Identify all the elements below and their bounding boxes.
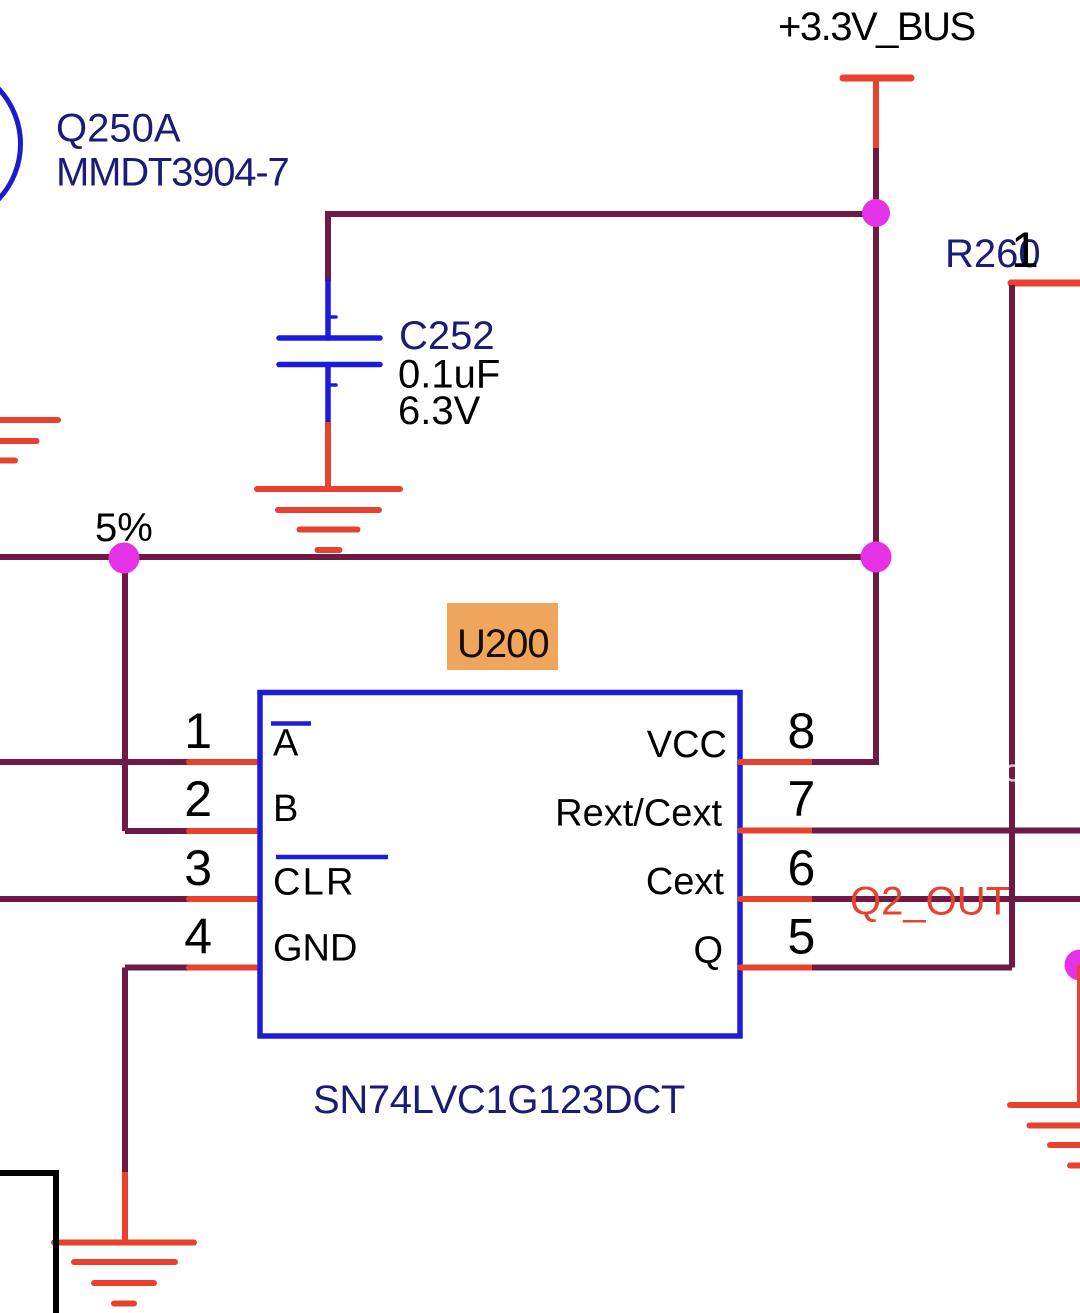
power symbol +3.3V_BUS bar: [843, 75, 911, 82]
wire: C252 top lead (maroon): [325, 211, 331, 281]
pin 7 stub: [740, 828, 812, 834]
svg-text:Rext/Cext: Rext/Cext: [555, 793, 722, 835]
power symbol stem (red): [873, 78, 879, 148]
wire: pin 3 CLR from left edge: [0, 896, 189, 902]
junction dot (right edge node): [1065, 950, 1080, 981]
svg-text:U200: U200: [457, 622, 549, 666]
svg-text:SN74LVC1G123DCT: SN74LVC1G123DCT: [313, 1078, 685, 1122]
wire: top horizontal from C252 to +3.3V rail: [328, 211, 876, 217]
svg-text:6: 6: [788, 840, 816, 896]
wire: pin 8 to VCC rail: [812, 759, 879, 765]
capacitor C252: [279, 281, 380, 422]
pin 3 stub: [189, 896, 259, 902]
wire: C252 bottom lead to ground (red): [325, 422, 331, 489]
svg-text:3: 3: [184, 840, 212, 896]
svg-text:5: 5: [788, 909, 816, 965]
svg-text:CLR: CLR: [273, 862, 356, 904]
pin 4 stub: [189, 965, 259, 971]
wire: pin 2 horizontal from 5% vertical: [125, 828, 189, 834]
ground symbol (left edge, partial): [0, 420, 58, 461]
svg-text:7: 7: [788, 771, 816, 827]
svg-text:C252: C252: [399, 314, 495, 358]
wire: GND red segment to ground: [122, 1172, 128, 1242]
pin 2 stub: [189, 828, 259, 834]
junction dot (power tap, top): [862, 199, 890, 227]
wire: vertical from 5% node down to pin 2 (x=125): [122, 557, 128, 831]
black box corner (bottom left): [0, 1173, 56, 1313]
svg-text:B: B: [273, 788, 298, 830]
wire: GND vertical drop (x=125): [122, 968, 128, 1173]
wire: pin 5 Q to R260 vertical: [812, 965, 1012, 971]
svg-text:Q2_OUT: Q2_OUT: [850, 880, 1010, 924]
svg-text:Q: Q: [693, 930, 723, 972]
svg-text:4: 4: [184, 909, 212, 965]
svg-text:2: 2: [184, 771, 212, 827]
wire: pin 1 A-input from left edge: [0, 759, 189, 765]
transistor Q250A circle outline (partial): [0, 64, 21, 225]
svg-text:VCC: VCC: [647, 724, 727, 766]
pin label A overline: [271, 721, 311, 726]
svg-text:+3.3V_BUS: +3.3V_BUS: [778, 5, 975, 49]
svg-text:GND: GND: [273, 928, 357, 970]
junction dot (VCC rail at bus): [861, 542, 892, 573]
pin 8 stub: [740, 759, 812, 765]
no-connect artifact circle: [1006, 766, 1021, 781]
resistor R260 pin stub (red): [1011, 280, 1080, 287]
ground symbol (below C252): [257, 489, 400, 550]
junction dot (5% node): [109, 543, 140, 574]
pin 6 stub: [740, 896, 812, 902]
IC U200 body: [260, 693, 740, 1037]
pin label CLR overline: [276, 855, 388, 860]
svg-text:Q250A: Q250A: [56, 107, 181, 151]
svg-text:8: 8: [788, 703, 816, 759]
ground symbol (bottom left): [54, 1243, 194, 1304]
pin 5 stub: [740, 965, 812, 971]
wire: pin 4 GND horizontal: [125, 965, 189, 971]
wire: R260 vertical down to Q output (x=1012): [1009, 285, 1015, 968]
svg-text:1: 1: [1011, 222, 1039, 278]
svg-text:MMDT3904-7: MMDT3904-7: [56, 151, 289, 195]
wire: right edge ground drop (red): [1077, 965, 1080, 1105]
U200 reference highlight box: [447, 603, 558, 670]
svg-text:6.3V: 6.3V: [398, 389, 481, 433]
ground symbol (bottom right, partial): [1010, 1105, 1080, 1166]
svg-text:1: 1: [184, 703, 212, 759]
wire: vertical +3.3V_BUS rail down to pin 8 VCC (x=876): [873, 148, 879, 762]
svg-text:A: A: [273, 723, 299, 765]
wire: horizontal bus y=557 from left edge to VCC rail: [0, 554, 876, 560]
svg-text:Cext: Cext: [646, 861, 725, 903]
wire: pin 6 Cext to right edge: [812, 896, 1080, 902]
pin 1 stub: [189, 759, 259, 765]
wire: pin 7 Rext/Cext to right edge: [812, 828, 1080, 834]
